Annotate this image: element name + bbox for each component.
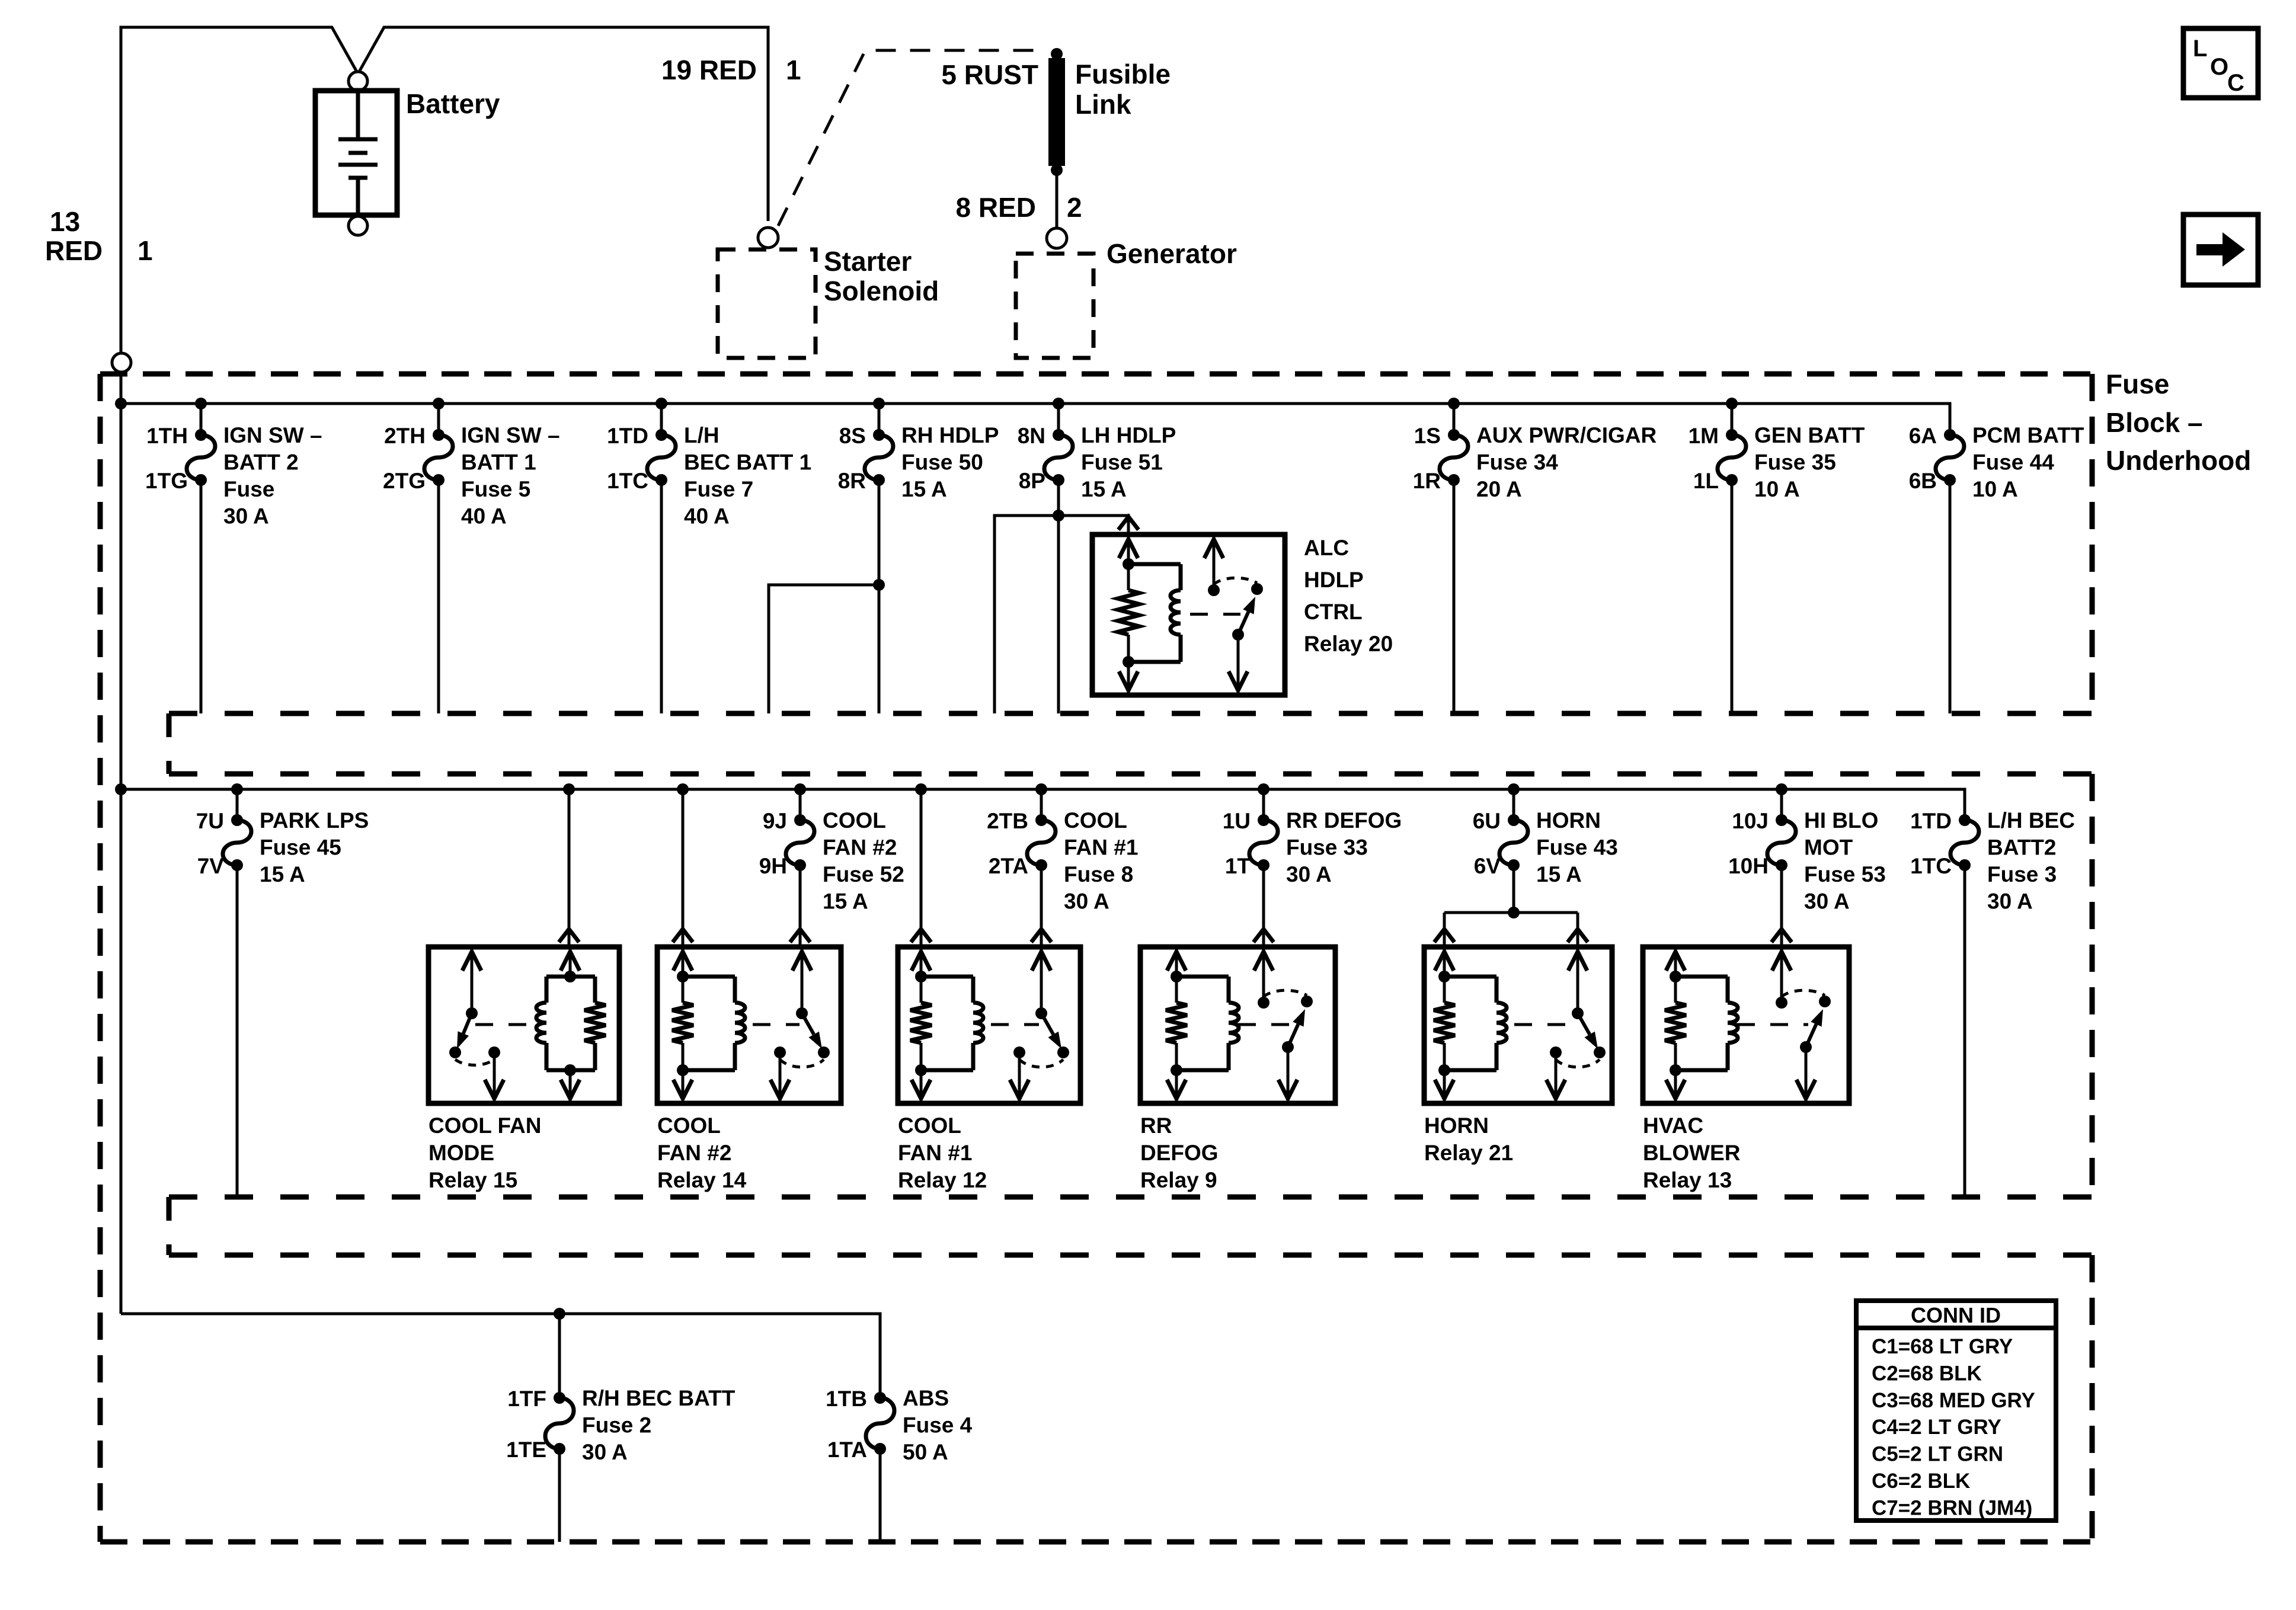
- continuation arrow box: [2183, 215, 2258, 285]
- relay 9 RR DEFOG: [1140, 947, 1335, 1192]
- svg-text:15 A: 15 A: [1536, 862, 1582, 886]
- svg-text:6U: 6U: [1473, 809, 1501, 833]
- svg-text:Fuse 33: Fuse 33: [1286, 836, 1368, 860]
- svg-text:L/H: L/H: [684, 423, 720, 447]
- svg-text:Underhood: Underhood: [2106, 445, 2251, 476]
- svg-text:1L: 1L: [1693, 469, 1719, 493]
- relay 21 HORN coil and resistor: [1443, 947, 1446, 977]
- svg-text:10J: 10J: [1732, 809, 1769, 833]
- svg-text:Relay 20: Relay 20: [1304, 632, 1393, 656]
- wire 8P drop with branches: [994, 480, 1139, 713]
- node bus2 tap x1152: [677, 783, 689, 795]
- fuse Fuse 50: [838, 423, 999, 501]
- svg-text:COOL: COOL: [898, 1113, 961, 1138]
- fuse Fuse 7: [607, 423, 811, 529]
- wire relay14 coil feed: [673, 789, 693, 947]
- svg-text:1TB: 1TB: [826, 1387, 867, 1411]
- node bus2 tap x1350: [794, 783, 806, 795]
- svg-text:IGN SW –: IGN SW –: [461, 423, 560, 447]
- fuse Fuse 43: [1473, 808, 1618, 886]
- svg-text:Relay 14: Relay 14: [657, 1168, 747, 1192]
- svg-text:Fuse 35: Fuse 35: [1754, 450, 1836, 475]
- fuse Fuse 51: [1018, 423, 1176, 501]
- wire 1T to relay9: [1253, 865, 1274, 947]
- node bus1 tap x740: [433, 398, 445, 409]
- svg-text:7V: 7V: [197, 854, 225, 878]
- svg-text:R/H BEC BATT: R/H BEC BATT: [582, 1386, 736, 1410]
- svg-text:CONN ID: CONN ID: [1911, 1303, 2001, 1327]
- svg-text:HVAC: HVAC: [1643, 1113, 1703, 1138]
- wire bus row 1: [115, 398, 1950, 435]
- svg-text:C6=2 BLK: C6=2 BLK: [1872, 1470, 1970, 1493]
- svg-text:30 A: 30 A: [1064, 889, 1109, 914]
- svg-text:1U: 1U: [1223, 809, 1251, 833]
- svg-text:1S: 1S: [1414, 424, 1441, 448]
- svg-text:BLOWER: BLOWER: [1643, 1141, 1740, 1165]
- wire 1TG drop: [200, 480, 203, 713]
- CONN ID table: [1856, 1301, 2056, 1521]
- svg-text:Fuse 50: Fuse 50: [901, 450, 983, 475]
- svg-text:BATT 2: BATT 2: [223, 450, 299, 475]
- svg-text:30 A: 30 A: [582, 1440, 628, 1464]
- svg-text:PCM BATT: PCM BATT: [1972, 423, 2084, 447]
- svg-text:LH HDLP: LH HDLP: [1081, 423, 1176, 447]
- node starter solenoid terminal: [758, 228, 778, 248]
- node fuse block feed connector: [112, 353, 131, 372]
- svg-text:2: 2: [1067, 192, 1082, 223]
- svg-text:Fuse 53: Fuse 53: [1804, 862, 1886, 886]
- svg-text:RED: RED: [45, 235, 103, 266]
- svg-text:C7=2 BRN (JM4): C7=2 BRN (JM4): [1872, 1496, 2032, 1519]
- svg-text:8S: 8S: [839, 424, 866, 448]
- relay 9 RR DEFOG coil and resistor: [1175, 947, 1178, 977]
- svg-text:6V: 6V: [1474, 854, 1501, 878]
- svg-text:30 A: 30 A: [223, 504, 269, 529]
- svg-text:COOL: COOL: [823, 808, 886, 833]
- svg-text:FAN #2: FAN #2: [823, 836, 897, 860]
- wire 9H to relay14: [790, 865, 810, 947]
- svg-text:Relay 15: Relay 15: [428, 1168, 517, 1192]
- fuse 30A IGN SW BATT2: [145, 423, 322, 529]
- svg-text:15 A: 15 A: [901, 477, 947, 501]
- svg-text:FAN #1: FAN #1: [1064, 836, 1138, 860]
- svg-text:Fuse 52: Fuse 52: [823, 862, 904, 886]
- svg-text:Fuse: Fuse: [2106, 369, 2169, 399]
- svg-text:AUX PWR/CIGAR: AUX PWR/CIGAR: [1476, 423, 1657, 447]
- svg-text:1TC: 1TC: [1910, 854, 1952, 878]
- svg-text:Fuse 34: Fuse 34: [1476, 450, 1558, 475]
- svg-text:COOL FAN: COOL FAN: [428, 1113, 542, 1138]
- wire 1TA drop: [879, 1449, 882, 1542]
- fuse Fuse 44: [1909, 423, 2084, 501]
- svg-text:PARK LPS: PARK LPS: [260, 808, 369, 833]
- svg-text:Fuse 2: Fuse 2: [582, 1413, 651, 1438]
- svg-text:1TF: 1TF: [507, 1387, 546, 1411]
- svg-text:1TH: 1TH: [146, 424, 188, 448]
- node bus1 tap x1786: [1053, 398, 1064, 409]
- wire 1TC drop: [660, 480, 663, 713]
- svg-text:15 A: 15 A: [1081, 477, 1127, 501]
- node bus2 tap x400: [231, 783, 243, 795]
- wire 7V drop: [236, 865, 239, 1197]
- svg-text:50 A: 50 A: [903, 1440, 948, 1464]
- svg-text:1TE: 1TE: [506, 1438, 546, 1462]
- svg-text:2TB: 2TB: [987, 809, 1028, 833]
- relay 9 RR DEFOG mech link: [1238, 1023, 1290, 1026]
- svg-text:8 RED: 8 RED: [956, 192, 1036, 223]
- relay 21 HORN: [1424, 947, 1612, 1165]
- label 19 RED 1: [661, 55, 801, 85]
- svg-text:30 A: 30 A: [1987, 889, 2033, 914]
- svg-text:10H: 10H: [1728, 854, 1769, 878]
- svg-text:Fuse 5: Fuse 5: [461, 477, 530, 501]
- relay 15 COOL FAN MODE switch: [471, 947, 474, 1013]
- svg-text:C: C: [2227, 70, 2244, 96]
- relay 21 HORN switch: [1576, 947, 1579, 1013]
- svg-text:Starter: Starter: [824, 246, 912, 277]
- svg-text:FAN #1: FAN #1: [898, 1141, 972, 1165]
- svg-text:C1=68 LT GRY: C1=68 LT GRY: [1872, 1335, 2013, 1358]
- svg-text:1TD: 1TD: [1910, 809, 1952, 833]
- relay 15 COOL FAN MODE mech link: [475, 1023, 535, 1026]
- svg-text:Fusible: Fusible: [1075, 59, 1171, 89]
- svg-text:20 A: 20 A: [1476, 477, 1522, 501]
- svg-text:7U: 7U: [196, 809, 224, 833]
- node battery positive terminal: [348, 72, 367, 91]
- svg-text:8P: 8P: [1019, 469, 1045, 493]
- node bus2 tap x1554: [915, 783, 927, 795]
- svg-text:40 A: 40 A: [684, 504, 730, 529]
- fuse Fuse 35: [1689, 423, 1865, 501]
- svg-text:2TA: 2TA: [989, 854, 1028, 878]
- wire 8R drop with branch: [769, 480, 885, 713]
- svg-text:HORN: HORN: [1424, 1113, 1489, 1138]
- svg-text:RH HDLP: RH HDLP: [901, 423, 999, 447]
- svg-text:FAN #2: FAN #2: [657, 1141, 731, 1165]
- node bus1 tap x1483: [873, 398, 885, 409]
- svg-text:Battery: Battery: [406, 88, 500, 119]
- relay 14 COOL FAN 2 mech link: [753, 1023, 800, 1026]
- svg-text:1TG: 1TG: [145, 469, 188, 493]
- svg-text:9H: 9H: [759, 854, 787, 878]
- svg-text:GEN BATT: GEN BATT: [1754, 423, 1865, 447]
- svg-text:Fuse 3: Fuse 3: [1987, 862, 2057, 886]
- wire left feed vertical: [120, 373, 123, 1314]
- svg-text:2TH: 2TH: [384, 424, 426, 448]
- svg-text:Fuse 8: Fuse 8: [1064, 862, 1133, 886]
- relay 14 COOL FAN 2: [657, 947, 841, 1192]
- svg-text:MODE: MODE: [428, 1141, 494, 1165]
- svg-text:Relay 12: Relay 12: [898, 1168, 987, 1192]
- boundary channel 2: [169, 1197, 2092, 1255]
- wire 1L drop: [1731, 480, 1734, 713]
- svg-text:1: 1: [137, 235, 153, 266]
- svg-text:Link: Link: [1075, 89, 1131, 120]
- label 13 RED 1: [45, 206, 153, 266]
- svg-text:IGN SW –: IGN SW –: [223, 423, 322, 447]
- svg-text:ALC: ALC: [1304, 536, 1349, 560]
- svg-text:1: 1: [786, 55, 801, 85]
- svg-text:C3=68 MED GRY: C3=68 MED GRY: [1872, 1389, 2035, 1412]
- svg-text:15 A: 15 A: [260, 862, 305, 886]
- svg-text:BEC BATT 1: BEC BATT 1: [684, 450, 811, 475]
- label fuse block underhood: [2106, 369, 2251, 476]
- relay 14 COOL FAN 2 coil and resistor: [682, 947, 685, 977]
- svg-text:10 A: 10 A: [1972, 477, 2018, 501]
- svg-text:Relay 13: Relay 13: [1643, 1168, 1732, 1192]
- fuse Fuse 45: [196, 808, 369, 886]
- svg-text:Block –: Block –: [2106, 407, 2203, 438]
- wire 2TA to relay12: [1031, 865, 1051, 947]
- relay 12 COOL FAN 1 coil and resistor: [920, 947, 923, 977]
- relay 13 HVAC BLOWER coil and resistor: [1674, 947, 1677, 977]
- relay 15 COOL FAN MODE coil and resistor: [569, 947, 572, 977]
- relay 14 COOL FAN 2 switch: [801, 947, 804, 1013]
- svg-text:1TD: 1TD: [607, 424, 648, 448]
- node bus2 tap x3006: [1776, 783, 1787, 795]
- wire 2TG drop: [437, 480, 440, 713]
- svg-text:30 A: 30 A: [1804, 889, 1850, 914]
- relay 20 coil and resistor: [1127, 534, 1130, 564]
- relay 15 COOL FAN MODE: [428, 947, 619, 1192]
- svg-text:1R: 1R: [1413, 469, 1441, 493]
- svg-text:10 A: 10 A: [1754, 477, 1800, 501]
- svg-text:13: 13: [50, 206, 80, 237]
- starter solenoid: [718, 246, 939, 358]
- relay 21 HORN mech link: [1514, 1023, 1575, 1026]
- svg-text:COOL: COOL: [657, 1113, 721, 1138]
- relay 9 RR DEFOG switch: [1262, 947, 1265, 1003]
- node bus1 tap x2453: [1448, 398, 1460, 409]
- fuse Fuse 8: [987, 808, 1138, 914]
- wire 1TC drop row2: [1964, 865, 1966, 1197]
- svg-text:8R: 8R: [838, 469, 866, 493]
- svg-text:Fuse 4: Fuse 4: [903, 1413, 973, 1438]
- svg-text:Fuse 7: Fuse 7: [684, 477, 753, 501]
- node bus1 tap x339: [195, 398, 207, 409]
- node bus1 tap x1116: [655, 398, 667, 409]
- generator: [1016, 238, 1237, 358]
- fuse Fuse 53: [1728, 808, 1886, 914]
- svg-text:BATT2: BATT2: [1987, 836, 2056, 860]
- svg-text:Fuse 44: Fuse 44: [1972, 450, 2054, 475]
- svg-text:MOT: MOT: [1804, 836, 1853, 860]
- relay 12 COOL FAN 1 switch: [1040, 947, 1043, 1013]
- svg-text:Generator: Generator: [1107, 238, 1237, 269]
- svg-text:5 RUST: 5 RUST: [941, 59, 1038, 90]
- relay 20 mech link: [1190, 613, 1240, 616]
- LOC reference box: [2183, 28, 2258, 98]
- svg-text:RR: RR: [1140, 1113, 1172, 1138]
- relay 20 switch: [1213, 534, 1216, 590]
- svg-text:Solenoid: Solenoid: [824, 276, 939, 306]
- node bus2 tap x2132: [1258, 783, 1269, 795]
- svg-text:Fuse: Fuse: [223, 477, 274, 501]
- svg-text:COOL: COOL: [1064, 808, 1127, 833]
- svg-text:O: O: [2210, 54, 2228, 80]
- battery: [315, 88, 500, 215]
- relay 12 COOL FAN 1: [898, 947, 1080, 1192]
- svg-text:RR DEFOG: RR DEFOG: [1286, 808, 1402, 833]
- svg-text:1TA: 1TA: [827, 1438, 867, 1462]
- svg-text:6B: 6B: [1909, 469, 1937, 493]
- svg-text:Relay 21: Relay 21: [1424, 1141, 1513, 1165]
- wire 6B drop: [1949, 480, 1952, 713]
- svg-text:1TC: 1TC: [607, 469, 648, 493]
- node bus2 tap x960: [563, 783, 575, 795]
- relay 13 HVAC BLOWER: [1643, 947, 1849, 1192]
- node bus1 tap x2922: [1726, 398, 1738, 409]
- svg-text:30 A: 30 A: [1286, 862, 1332, 886]
- fuse Fuse 4: [826, 1386, 973, 1464]
- relay 13 HVAC BLOWER switch: [1780, 947, 1783, 1003]
- fuse Fuse 2: [506, 1386, 736, 1464]
- svg-text:HORN: HORN: [1536, 808, 1601, 833]
- fuse Fuse 33: [1223, 808, 1402, 886]
- fuse Fuse 5: [383, 423, 560, 529]
- wire 1R drop: [1453, 480, 1456, 713]
- svg-text:BATT 1: BATT 1: [461, 450, 536, 475]
- svg-text:9J: 9J: [763, 809, 787, 833]
- wire 10H to relay13: [1771, 865, 1792, 947]
- svg-text:Fuse 51: Fuse 51: [1081, 450, 1163, 475]
- relay 20 ALC HDLP CTRL: [1092, 534, 1393, 695]
- wire dashed link to fusible link: [778, 50, 1044, 226]
- svg-text:C2=68 BLK: C2=68 BLK: [1872, 1362, 1982, 1385]
- boundary channel 1: [169, 713, 2092, 774]
- svg-text:Relay 9: Relay 9: [1140, 1168, 1217, 1192]
- node bus2 tap x1757: [1035, 783, 1047, 795]
- svg-text:2TG: 2TG: [383, 469, 426, 493]
- svg-text:L: L: [2193, 36, 2207, 62]
- svg-text:19 RED: 19 RED: [661, 55, 757, 85]
- svg-text:DEFOG: DEFOG: [1140, 1141, 1219, 1165]
- svg-text:CTRL: CTRL: [1304, 600, 1363, 624]
- svg-text:L/H BEC: L/H BEC: [1987, 808, 2075, 833]
- svg-text:1M: 1M: [1689, 424, 1719, 448]
- wire relay12 coil feed: [911, 789, 931, 947]
- wire 13 RED battery feed: [121, 27, 768, 352]
- node bus2 tap x2554: [1508, 783, 1520, 795]
- fusible link: [941, 48, 1171, 176]
- fuse Fuse 3: [1910, 808, 2075, 914]
- relay 13 HVAC BLOWER mech link: [1737, 1023, 1808, 1026]
- wire relay15 coil feed: [559, 789, 579, 947]
- wire bottom bus: [121, 1308, 880, 1398]
- svg-text:C5=2 LT GRN: C5=2 LT GRN: [1872, 1443, 2003, 1466]
- svg-text:Fuse 43: Fuse 43: [1536, 836, 1618, 860]
- relay 12 COOL FAN 1 mech link: [991, 1023, 1039, 1026]
- fuse Fuse 52: [759, 808, 904, 914]
- svg-text:1T: 1T: [1225, 854, 1251, 878]
- svg-text:8N: 8N: [1018, 424, 1045, 448]
- svg-text:Fuse 45: Fuse 45: [260, 836, 341, 860]
- svg-text:40 A: 40 A: [461, 504, 507, 529]
- svg-text:15 A: 15 A: [823, 889, 868, 914]
- svg-text:C4=2 LT GRY: C4=2 LT GRY: [1872, 1416, 2001, 1439]
- svg-text:HDLP: HDLP: [1304, 568, 1364, 592]
- node battery negative terminal: [348, 216, 367, 235]
- svg-text:ABS: ABS: [903, 1386, 949, 1410]
- svg-text:HI BLO: HI BLO: [1804, 808, 1878, 833]
- fuse Fuse 34: [1413, 423, 1657, 501]
- node generator terminal: [1047, 228, 1067, 248]
- fuse block underhood boundary: [100, 374, 2092, 1542]
- wire 1TE drop: [558, 1449, 561, 1542]
- wire bus row 2: [115, 783, 1965, 820]
- svg-text:6A: 6A: [1909, 424, 1937, 448]
- wire 8 RED 2: [956, 175, 1082, 228]
- wire 6V split to relay21: [1434, 865, 1588, 947]
